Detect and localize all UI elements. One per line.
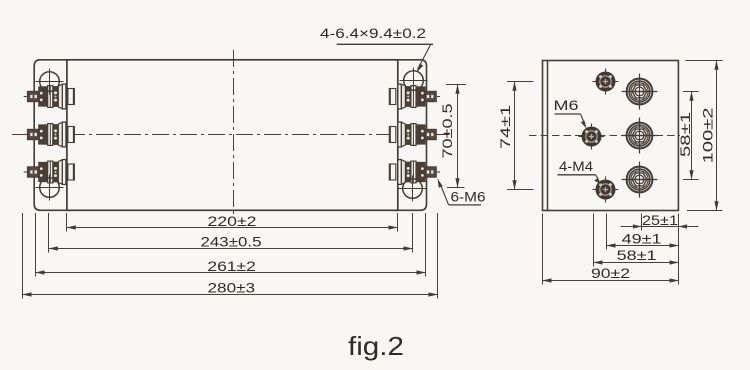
plate outline (543, 61, 679, 211)
terminal T6 right-bottom (389, 160, 440, 185)
dimension 58+-1 (right side vertical) (677, 92, 699, 180)
extension line 220 left (66, 213, 68, 232)
svg-text:74±1: 74±1 (497, 105, 513, 149)
screw 4-M4 bottom (right view) (593, 177, 619, 203)
extension line plate left edge (542, 214, 544, 285)
vertical centerline (233, 50, 235, 216)
terminal T2 left-middle (24, 122, 75, 147)
big terminal middle (right view) (622, 118, 658, 154)
extension line 220 right (397, 213, 399, 232)
extension line 261 left (35, 213, 37, 277)
extension line plate right edge (678, 214, 680, 285)
big terminal top (right view) (622, 74, 658, 110)
horizontal centerline (12, 134, 451, 136)
svg-text:280±3: 280±3 (208, 280, 256, 296)
svg-text:70±0.5: 70±0.5 (439, 103, 455, 158)
mounting slot top-right (400, 68, 428, 94)
big terminal bottom (right view) (622, 162, 658, 198)
extension line 243 left (48, 213, 50, 253)
extension line 58 left (M6 column) (593, 214, 595, 267)
right flange bracket (394, 60, 427, 211)
extension line 49 left (screw column) (606, 214, 608, 250)
dimension 90+-2 (543, 265, 679, 281)
dimension 243+-0.5 (49, 233, 413, 249)
svg-text:fig.2: fig.2 (348, 331, 404, 361)
extension line 280 left (22, 213, 24, 299)
svg-text:M6: M6 (554, 97, 579, 113)
plate inner edge line (547, 61, 549, 211)
terminal T5 right-middle (389, 122, 440, 147)
label 4-6.4x9.4 (320, 25, 433, 73)
screw top (right view) (593, 69, 619, 95)
svg-text:25±1: 25±1 (642, 212, 678, 228)
svg-text:58±1: 58±1 (677, 112, 693, 157)
screw M6 middle (right view) (579, 124, 605, 150)
svg-text:58±1: 58±1 (617, 247, 657, 263)
svg-text:4-M4: 4-M4 (559, 158, 593, 174)
label 6-M6 (438, 179, 486, 205)
svg-text:220±2: 220±2 (208, 213, 257, 229)
terminal T1 left-top (24, 84, 75, 109)
svg-text:4-6.4×9.4±0.2: 4-6.4×9.4±0.2 (320, 25, 426, 41)
dimension 100+-2 (686, 61, 723, 211)
svg-text:90±2: 90±2 (591, 265, 630, 281)
svg-text:243±0.5: 243±0.5 (201, 233, 262, 249)
extension line 25 left (terminal column) (641, 214, 643, 231)
svg-text:49±1: 49±1 (622, 230, 662, 246)
terminal T3 left-bottom (24, 160, 75, 185)
dimension 25+-1 (621, 212, 699, 229)
label 4-M4 (558, 158, 602, 184)
svg-text:100±2: 100±2 (700, 107, 716, 163)
case body (67, 60, 398, 211)
dimension 58+-1 (bottom) (594, 247, 679, 263)
svg-text:261±2: 261±2 (207, 258, 256, 274)
dimension 70+-0.5 (439, 85, 466, 188)
dimension 220+-2 (67, 213, 398, 229)
dimension 49+-1 (607, 230, 679, 246)
dashed centerline right view (529, 135, 680, 137)
extension line 280 right (437, 213, 439, 299)
extension line 243 right (412, 213, 414, 253)
terminal T4 right-top (389, 84, 440, 109)
dimension 280+-3 (23, 280, 438, 296)
svg-text:6-M6: 6-M6 (451, 189, 486, 205)
label M6 (554, 97, 587, 129)
dimension 261+-2 (36, 258, 426, 274)
mounting slot bottom-left (36, 175, 64, 201)
mounting slot bottom-right (399, 176, 427, 202)
extension line 261 right (425, 213, 427, 277)
mounting slot top-left (36, 69, 64, 95)
left flange bracket (34, 60, 70, 211)
dimension 74+-1 (497, 82, 534, 190)
